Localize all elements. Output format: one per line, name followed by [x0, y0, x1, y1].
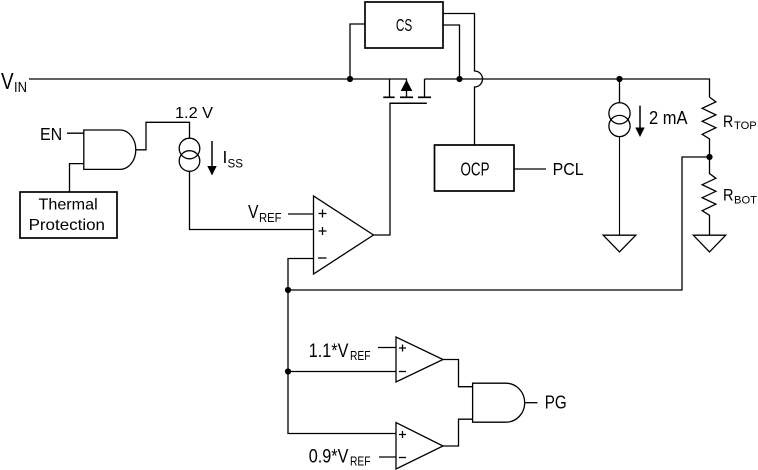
label ISS	[223, 147, 244, 171]
label 1.1*VREF	[309, 341, 371, 363]
wire ISS to error amp noninverting input	[190, 171, 314, 229]
junction FB comparator branch	[285, 368, 291, 374]
node FB junction at error amp	[285, 287, 291, 293]
comparator U4 undervoltage	[396, 423, 443, 470]
svg-text:R: R	[723, 185, 734, 204]
svg-text:PG: PG	[545, 392, 567, 413]
wire FB down to comparator branch	[288, 290, 396, 434]
wire EN to enable gate	[67, 132, 84, 134]
svg-text:R: R	[723, 112, 733, 131]
wire CS to OCP with hop over VIN rail	[443, 14, 483, 146]
wire CS left sense lead	[350, 24, 365, 79]
block Thermal Protection	[20, 192, 117, 238]
wire U4 output to PG gate	[443, 419, 473, 446]
svg-text:IN: IN	[14, 80, 27, 96]
block CS current sense	[365, 2, 443, 48]
svg-text:1.2 V: 1.2 V	[175, 105, 213, 122]
wire Thermal Protection to U1 lower input	[70, 164, 84, 192]
svg-text:BOT: BOT	[734, 194, 757, 206]
svg-text:SS: SS	[228, 157, 244, 171]
block OCP	[435, 145, 515, 191]
wire 1.1*VREF to U3 noninverting input	[378, 347, 396, 349]
wire CS right sense lead	[443, 25, 460, 79]
current source 2mA	[609, 79, 630, 137]
svg-text:PCL: PCL	[553, 159, 584, 179]
svg-text:0.9*V: 0.9*V	[309, 447, 349, 468]
svg-text:Protection: Protection	[29, 217, 105, 234]
svg-text:REF: REF	[350, 349, 371, 363]
wire U2 inverting input to feedback node	[288, 259, 314, 291]
label RBOT	[723, 185, 757, 206]
arrow ISS direction	[207, 141, 216, 176]
svg-text:1.1*V: 1.1*V	[309, 341, 349, 362]
node VIN label	[1, 68, 27, 96]
arrow 2mA direction	[635, 106, 644, 137]
junction divider tap	[706, 154, 712, 160]
svg-text:CS: CS	[396, 15, 412, 35]
svg-text:TOP: TOP	[734, 120, 757, 132]
wire U5 output to PG	[525, 402, 538, 404]
wire FB to U3 inverting input	[288, 371, 396, 373]
svg-text:REF: REF	[350, 455, 371, 469]
svg-text:Thermal: Thermal	[39, 196, 98, 213]
wire OCP output to PCL	[514, 168, 546, 170]
wire 2mA to ground	[619, 137, 621, 236]
wire 0.9*VREF to U4 inverting input	[379, 456, 396, 458]
label 0.9*VREF	[309, 447, 371, 469]
ground under 2mA source	[603, 235, 636, 252]
transistor Q1 pass FET	[383, 79, 431, 103]
op-amp U2 error amplifier	[314, 196, 374, 274]
label Thermal Protection	[29, 196, 105, 234]
and-gate U5 power good	[473, 383, 525, 422]
current source ISS	[179, 138, 200, 171]
svg-text:OCP: OCP	[461, 160, 490, 180]
wire VIN rail left segment	[29, 78, 407, 80]
junction CS left on VIN rail	[347, 76, 353, 82]
label VREF	[248, 202, 282, 225]
ground under RBOT	[693, 235, 725, 252]
resistor RTOP	[702, 97, 716, 157]
wire U1 output to ISS current source	[136, 122, 190, 150]
comparator U3 overvoltage	[396, 337, 443, 382]
wire feedback net to divider tap	[288, 157, 710, 290]
svg-text:V: V	[1, 68, 14, 94]
svg-text:EN: EN	[40, 124, 62, 144]
junction CS right on VIN rail	[456, 76, 462, 82]
label RTOP	[723, 112, 757, 132]
wire VREF to U2 input	[288, 213, 314, 215]
wire U3 output to PG gate	[443, 360, 473, 387]
svg-text:V: V	[248, 202, 259, 223]
wire Q1 gate to error amp output	[374, 104, 391, 235]
junction 2mA source on VIN rail	[616, 76, 622, 82]
and-gate U1 enable	[84, 130, 136, 169]
wire VIN rail right segment	[425, 79, 710, 97]
svg-text:2 mA: 2 mA	[649, 108, 688, 128]
svg-text:REF: REF	[259, 211, 282, 225]
resistor RBOT	[702, 157, 716, 235]
